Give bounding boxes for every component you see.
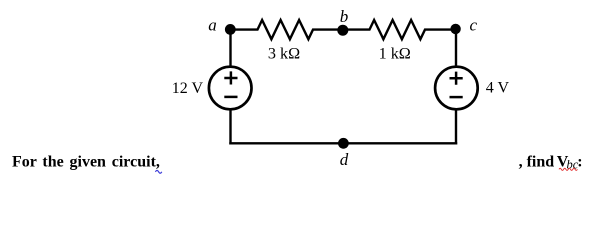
svg-text:b: b (340, 7, 349, 26)
svg-text:3 kΩ: 3 kΩ (268, 45, 300, 63)
svg-text:a: a (208, 16, 217, 35)
svg-text:12 V: 12 V (172, 80, 204, 97)
svg-text::: : (577, 154, 582, 171)
svg-text:d: d (340, 150, 349, 169)
svg-text:, find: , find (519, 154, 555, 171)
svg-text:c: c (470, 16, 478, 35)
svg-text:For the given circuit,: For the given circuit, (12, 154, 160, 171)
svg-text:1 kΩ: 1 kΩ (379, 45, 411, 63)
svg-text:4 V: 4 V (486, 79, 510, 96)
